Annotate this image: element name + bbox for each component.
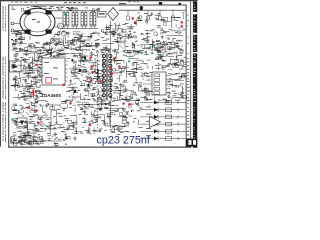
svg-text:cp23 275nf: cp23 275nf xyxy=(97,135,151,147)
svg-text:TDA4605: TDA4605 xyxy=(41,93,62,98)
